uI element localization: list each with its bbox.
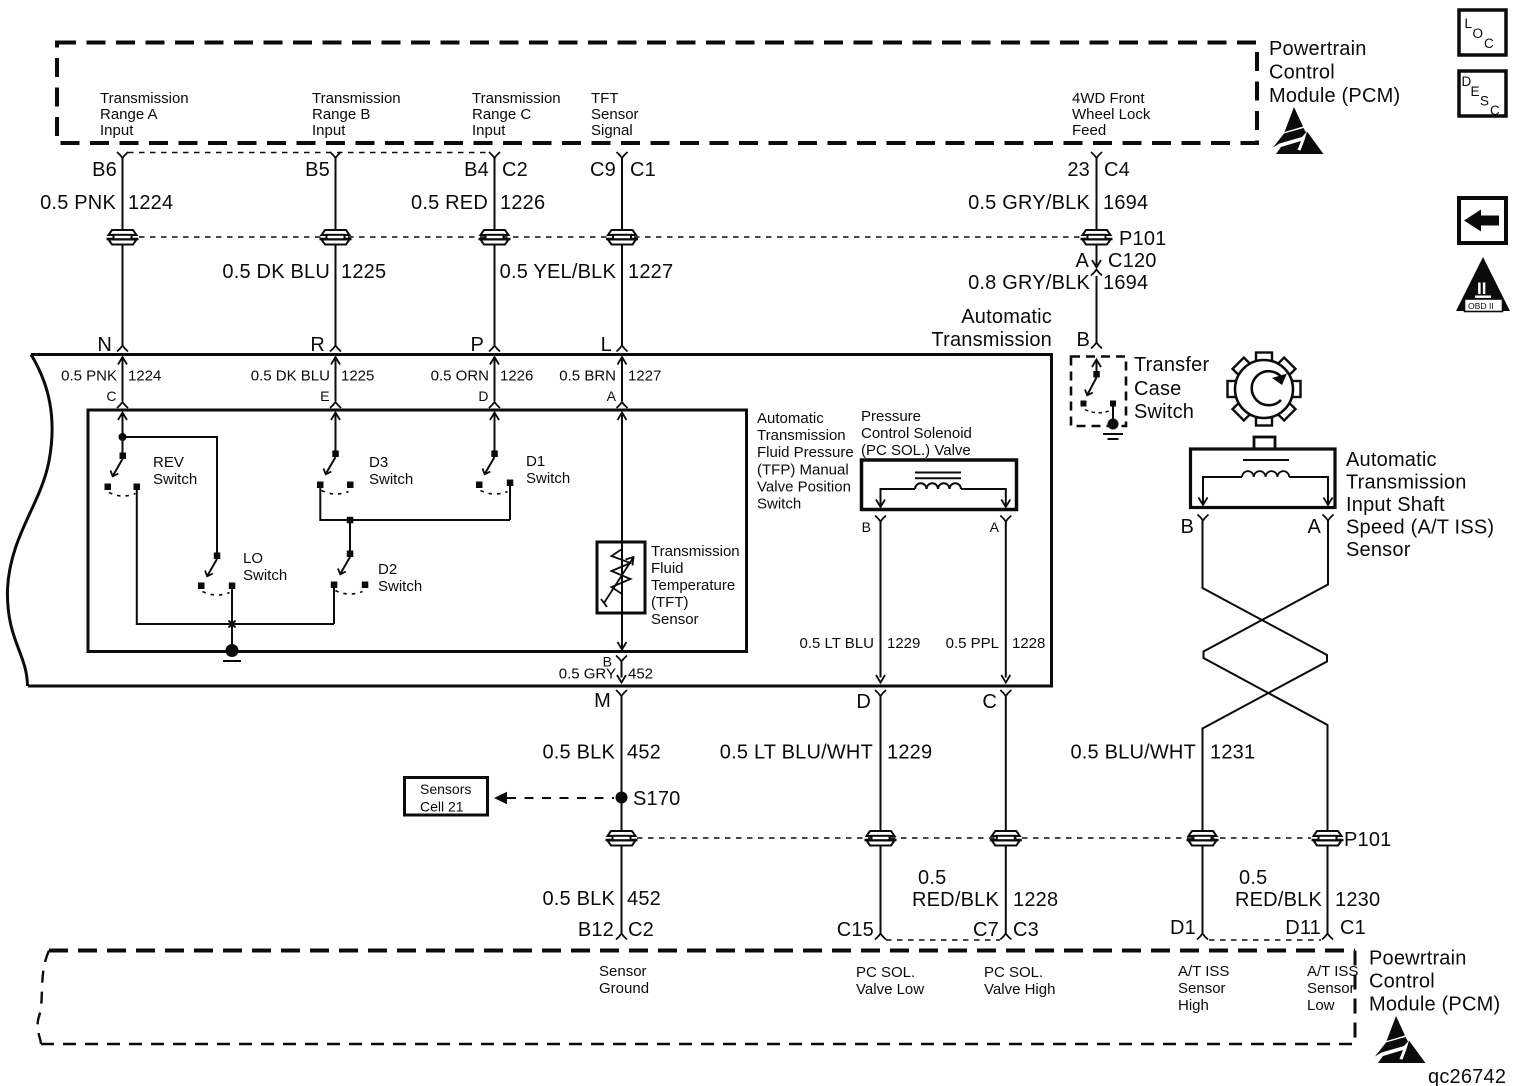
wire 1224 lower segment [122, 244, 124, 345]
wire label 0.5 ORN 1226 (inner) [431, 368, 534, 385]
inline connector P101 on wire 1225 [320, 230, 352, 245]
ESD symbol (top PCM) [1273, 107, 1324, 154]
D2 switch [331, 551, 369, 595]
wire label 0.5 PNK 1224 [40, 192, 173, 214]
svg-text:C3: C3 [1013, 919, 1039, 941]
labels A C120 [1075, 250, 1156, 272]
svg-text:Control: Control [1369, 971, 1435, 993]
svg-text:Case: Case [1134, 378, 1182, 400]
label: PC SOL. Valve Low [856, 964, 924, 998]
svg-text:A: A [1075, 250, 1089, 272]
svg-text:Fluid Pressure: Fluid Pressure [757, 444, 854, 461]
svg-text:452: 452 [628, 666, 653, 683]
wire label 0.8 GRY/BLK 1694 [968, 272, 1148, 294]
wire label 0.5 RED/BLK 1228 [912, 867, 1058, 911]
svg-text:Input Shaft: Input Shaft [1346, 494, 1445, 516]
svg-text:P101: P101 [1344, 829, 1392, 851]
svg-text:C2: C2 [628, 919, 654, 941]
pin E Y connector [330, 402, 341, 408]
pin N Y connector [117, 346, 128, 352]
svg-text:C: C [982, 691, 997, 713]
svg-text:0.8 GRY/BLK: 0.8 GRY/BLK [968, 272, 1090, 294]
wire R inside box upper [331, 357, 340, 401]
connector row P101 dashed line (upper) [139, 236, 1080, 238]
svg-text:Transmission: Transmission [100, 90, 189, 107]
svg-text:Switch: Switch [243, 567, 287, 584]
pin B Y connector (PC SOL) [875, 516, 886, 522]
wire 1230 twisted pair right [1204, 521, 1329, 934]
inline connector P101 on wire 1226 [479, 230, 511, 245]
TFP Manual Valve Position Switch inner box [88, 410, 747, 652]
wire 0.5 PNK 1224 (upper) [122, 158, 124, 230]
wire label 0.5 PNK 1224 (inner) [61, 368, 161, 385]
svg-text:N: N [97, 334, 112, 356]
pin C Y connector (below trans box) [1000, 690, 1011, 696]
svg-text:Sensors: Sensors [420, 781, 471, 797]
svg-text:C1: C1 [630, 159, 656, 181]
pin labels B12 C2 [578, 919, 654, 941]
wire label 0.5 RED 1226 [411, 192, 545, 214]
wire N inside box upper [118, 357, 127, 401]
svg-text:0.5: 0.5 [1239, 867, 1267, 889]
svg-text:A/T ISS: A/T ISS [1178, 963, 1229, 980]
svg-text:A/T ISS: A/T ISS [1307, 963, 1358, 980]
wire label 0.5 BLK 452 (upper) [542, 742, 661, 764]
svg-text:M: M [594, 690, 611, 712]
svg-text:B: B [862, 519, 871, 535]
svg-text:Range C: Range C [472, 106, 531, 123]
wire to REV switch [118, 413, 127, 455]
svg-text:1228: 1228 [1013, 889, 1058, 911]
svg-text:1230: 1230 [1335, 889, 1380, 911]
wire label 0.5 GRY 452 [559, 666, 653, 683]
pin D11 Y connector [1322, 934, 1333, 940]
label Transfer Case Switch [1134, 354, 1209, 423]
svg-text:0.5 PNK: 0.5 PNK [61, 368, 117, 385]
PC SOL solenoid coil [915, 483, 961, 489]
svg-text:RED/BLK: RED/BLK [1235, 889, 1322, 911]
Transfer Case Switch dashed box [1071, 357, 1126, 427]
svg-text:0.5 BLU/WHT: 0.5 BLU/WHT [1070, 742, 1196, 764]
svg-text:C9: C9 [590, 159, 616, 181]
wire 0.5 GRY/BLK 1694 (upper) [1096, 158, 1098, 230]
label Sensors Cell 21 [420, 781, 471, 815]
inline connector on wire 1231 [1187, 831, 1219, 846]
svg-text:C4: C4 [1104, 159, 1130, 181]
pin 23/C4 Y connector [1091, 152, 1102, 158]
wire to D2 switch [349, 523, 351, 552]
wire junction to LO switch [123, 437, 218, 553]
label: Pressure Control Solenoid (PC SOL.) Valve [861, 408, 972, 459]
svg-text:0.5: 0.5 [918, 867, 946, 889]
connector C120 arrow and Y [1092, 260, 1101, 268]
svg-text:0.5 BRN: 0.5 BRN [559, 368, 616, 385]
svg-text:PC SOL.: PC SOL. [984, 964, 1043, 981]
TFT arrow [601, 557, 634, 607]
svg-text:D3: D3 [369, 454, 388, 471]
wire 1226 lower segment [494, 244, 496, 345]
svg-text:0.5 DK BLU: 0.5 DK BLU [251, 368, 330, 385]
svg-text:Transmission: Transmission [931, 329, 1052, 351]
pin labels C7 C3 [973, 919, 1039, 941]
pin L Y connector [617, 346, 628, 352]
svg-text:Sensor: Sensor [651, 611, 699, 628]
svg-text:1231: 1231 [1210, 742, 1255, 764]
pin labels B4 C2 [464, 159, 528, 181]
label REV Switch [153, 454, 197, 488]
wire 0.5 RED/BLK 1228 [1005, 696, 1007, 832]
svg-text:Module (PCM): Module (PCM) [1369, 994, 1500, 1016]
pin B6 Y connector [117, 152, 128, 158]
A/T ISS sensor box [1191, 449, 1336, 508]
svg-text:Valve Position: Valve Position [757, 479, 851, 496]
TFT sensor box [597, 542, 645, 613]
pin labels D11 C1 [1285, 917, 1366, 939]
svg-text:B4: B4 [464, 159, 489, 181]
svg-text:Range A: Range A [100, 106, 158, 123]
svg-text:Switch: Switch [369, 471, 413, 488]
svg-text:D1: D1 [1170, 917, 1196, 939]
connector face dashed line C15-C7 [886, 939, 1000, 941]
pin C7 Y connector [1000, 934, 1011, 940]
label D1 Switch [526, 453, 570, 487]
node: junction square D2 tap [347, 517, 354, 524]
svg-text:1224: 1224 [128, 192, 173, 214]
svg-text:Valve High: Valve High [984, 981, 1055, 998]
svg-text:Switch: Switch [378, 578, 422, 595]
svg-text:452: 452 [627, 742, 661, 764]
label LO Switch [243, 550, 287, 584]
svg-text:B5: B5 [305, 159, 330, 181]
pin P Y connector [489, 346, 500, 352]
svg-text:Input: Input [312, 122, 346, 139]
label: Automatic Transmission Fluid Pressure (TFP) Manual Valve Position Switch [757, 410, 854, 513]
svg-text:B: B [1180, 516, 1194, 538]
transfer case ground dot [1108, 419, 1119, 430]
svg-text:Module (PCM): Module (PCM) [1269, 85, 1400, 107]
wire 0.5 LT BLU 1229 [876, 522, 885, 683]
D3 switch [317, 451, 354, 495]
svg-text:C: C [106, 388, 116, 404]
svg-text:Transmission: Transmission [472, 90, 561, 107]
svg-text:Signal: Signal [591, 122, 633, 139]
pin D Y connector [489, 402, 500, 408]
pin B Y connector (ISS) [1198, 515, 1209, 521]
svg-text:Input: Input [472, 122, 506, 139]
inline connector on wire 1229 [865, 831, 897, 846]
connector row P101 dashed line (lower) [637, 837, 1311, 839]
svg-text:Powertrain: Powertrain [1269, 38, 1367, 60]
svg-text:Control Solenoid: Control Solenoid [861, 425, 972, 442]
wire label 0.5 GRY/BLK 1694 [968, 192, 1148, 214]
icon OBD II triangle [1456, 257, 1510, 312]
svg-text:Transfer: Transfer [1134, 354, 1209, 376]
ISS coil [1242, 471, 1289, 477]
svg-text:1225: 1225 [341, 368, 374, 385]
REV switch [105, 453, 141, 497]
svg-text:0.5 LT BLU/WHT: 0.5 LT BLU/WHT [720, 742, 873, 764]
svg-text:D11: D11 [1285, 917, 1321, 939]
pin A Y connector (ISS) [1323, 515, 1334, 521]
svg-text:OBD II: OBD II [1468, 301, 1494, 311]
svg-text:Low: Low [1307, 997, 1335, 1014]
svg-text:RED/BLK: RED/BLK [912, 889, 999, 911]
svg-text:1694: 1694 [1103, 272, 1148, 294]
svg-text:LO: LO [243, 550, 263, 567]
label: Sensor Ground [599, 963, 649, 997]
svg-text:0.5 BLK: 0.5 BLK [542, 888, 615, 910]
svg-text:Cell 21: Cell 21 [420, 799, 464, 815]
svg-text:A: A [607, 388, 617, 404]
svg-text:Sensor: Sensor [591, 106, 639, 123]
pin A Y connector [617, 402, 628, 408]
wire to D1 switch [490, 413, 499, 453]
wire 0.5 LT BLU/WHT 1229 [880, 696, 882, 832]
splice S170 [616, 792, 628, 804]
wire 1225 lower segment [335, 244, 337, 345]
svg-text:0.5 GRY: 0.5 GRY [559, 666, 616, 683]
connector face dashed line D1-D11 [1209, 939, 1321, 941]
PC SOL coil leads with arrows [876, 489, 1010, 507]
svg-text:S: S [1480, 94, 1489, 109]
svg-text:Transmission: Transmission [312, 90, 401, 107]
svg-text:Speed (A/T ISS): Speed (A/T ISS) [1346, 517, 1494, 539]
inline connector on wire 1230 [1312, 831, 1344, 846]
svg-text:0.5 PPL: 0.5 PPL [946, 635, 999, 652]
label D2 Switch [378, 561, 422, 595]
svg-text:452: 452 [627, 888, 661, 910]
wire D1 contact down to bus [509, 486, 511, 520]
A/T ISS sensor stem [1254, 437, 1275, 449]
wire label 0.5 BLK 452 (lower) [542, 888, 661, 910]
svg-text:Pressure: Pressure [861, 408, 921, 425]
svg-text:A: A [1307, 516, 1321, 538]
svg-text:B12: B12 [578, 919, 614, 941]
svg-text:Sensor: Sensor [1346, 539, 1411, 561]
pin D1 Y connector [1197, 934, 1208, 940]
inline connector on wire 1228 [990, 831, 1022, 846]
label: Transmission Range B Input [312, 90, 401, 139]
wire label 0.5 DK BLU 1225 (inner) [251, 368, 375, 385]
svg-text:Ground: Ground [599, 980, 649, 997]
label: Transmission Fluid Temperature (TFT) Sensor [651, 543, 740, 628]
wire L (TFT) inside box [618, 357, 627, 401]
svg-text:D: D [478, 388, 488, 404]
wire REV contact down and across to D2 leg [137, 490, 334, 624]
svg-text:B6: B6 [92, 159, 117, 181]
svg-text:Switch: Switch [1134, 401, 1194, 423]
svg-text:Temperature: Temperature [651, 577, 735, 594]
svg-text:PC SOL.: PC SOL. [856, 964, 915, 981]
transfer case switch element [1081, 360, 1117, 420]
pin B5 Y connector [330, 152, 341, 158]
wire 0.5 RED 1226 (upper) [494, 158, 496, 230]
svg-text:0.5 GRY/BLK: 0.5 GRY/BLK [968, 192, 1090, 214]
label: TFT Sensor Signal [591, 90, 639, 139]
svg-text:D: D [856, 691, 871, 713]
svg-text:(PC SOL.) Valve: (PC SOL.) Valve [861, 442, 971, 459]
svg-text:1228: 1228 [1012, 635, 1045, 652]
svg-text:Wheel Lock: Wheel Lock [1072, 106, 1151, 123]
pin A Y connector (PC SOL) [1000, 516, 1011, 522]
node: junction dot wire C [119, 433, 127, 441]
svg-text:0.5 PNK: 0.5 PNK [40, 192, 116, 214]
pin C15 Y connector [875, 934, 886, 940]
svg-text:C120: C120 [1108, 250, 1157, 272]
wire label 0.5 YEL/BLK 1227 [500, 261, 674, 283]
svg-text:D2: D2 [378, 561, 397, 578]
svg-text:0.5 DK BLU: 0.5 DK BLU [222, 261, 330, 283]
wire label 0.5 LT BLU/WHT 1229 [720, 742, 933, 764]
svg-text:Poewrtrain: Poewrtrain [1369, 948, 1467, 970]
label: PC SOL. Valve High [984, 964, 1055, 998]
svg-text:Automatic: Automatic [961, 306, 1052, 328]
wire 0.5 DK BLU 1225 (upper) [335, 158, 337, 230]
svg-text:L: L [1465, 16, 1473, 31]
svg-text:Automatic: Automatic [757, 410, 824, 427]
svg-text:O: O [1473, 26, 1484, 41]
svg-text:23: 23 [1067, 159, 1090, 181]
svg-text:1229: 1229 [887, 742, 932, 764]
svg-text:C1: C1 [1340, 917, 1366, 939]
label: 4WD Front Wheel Lock Feed [1072, 90, 1151, 139]
pin C9/C1 Y connector [617, 152, 628, 158]
dashed reference pointer with arrowhead [494, 792, 614, 804]
svg-text:C: C [1484, 36, 1494, 51]
svg-text:Switch: Switch [757, 496, 801, 513]
Automatic Transmission box (torn left edge) [7, 355, 1051, 687]
inline connector on wire 452 [606, 831, 638, 846]
transfer case ground ticks [1103, 434, 1123, 439]
svg-text:Transmission: Transmission [1346, 472, 1467, 494]
pin labels C9 C1 [590, 159, 656, 181]
svg-text:D1: D1 [526, 453, 545, 470]
svg-text:1225: 1225 [341, 261, 386, 283]
svg-text:S170: S170 [633, 788, 681, 810]
svg-text:Sensor: Sensor [1178, 980, 1226, 997]
svg-text:Range B: Range B [312, 106, 370, 123]
wire label 0.5 RED/BLK 1230 [1235, 867, 1380, 911]
wire 1227 lower segment [621, 244, 623, 345]
wire D2 contact down to bus [333, 588, 335, 624]
svg-text:Transmission: Transmission [757, 427, 846, 444]
wire to D3 switch [331, 413, 340, 453]
svg-text:C7: C7 [973, 919, 999, 941]
pin B4/C2 Y connector [489, 152, 500, 158]
pin labels 23 C4 [1067, 159, 1130, 181]
label: A/T ISS Sensor Low [1307, 963, 1358, 1014]
svg-text:0.5 BLK: 0.5 BLK [542, 742, 615, 764]
PCM dashed box (bottom) [38, 951, 1355, 1045]
label D3 Switch [369, 454, 413, 488]
svg-text:Control: Control [1269, 62, 1335, 84]
wire LO contact to ground dot [231, 589, 233, 650]
svg-text:1227: 1227 [628, 368, 661, 385]
pin B12 Y connector [616, 934, 627, 940]
ground tick [223, 660, 241, 662]
label: Powertrain Control Module (PCM) [1269, 38, 1400, 107]
svg-text:0.5 ORN: 0.5 ORN [431, 368, 489, 385]
wire 1229 lower segment [880, 845, 882, 933]
svg-text:Switch: Switch [153, 471, 197, 488]
inline connector P101 on wire 1224 [107, 230, 139, 245]
label Automatic Transmission [931, 306, 1052, 351]
wire 0.5 GRY 452 [617, 662, 626, 683]
Sensors Cell 21 reference box [405, 778, 488, 816]
svg-text:High: High [1178, 997, 1209, 1014]
svg-text:A: A [990, 519, 1000, 535]
svg-text:Sensor: Sensor [599, 963, 647, 980]
svg-text:1226: 1226 [500, 192, 545, 214]
icon box back-arrow [1459, 198, 1506, 243]
label: Poewrtrain Control Module (PCM) [1369, 948, 1500, 1016]
wire label 0.5 BLU/WHT 1231 [1070, 742, 1255, 764]
wire label 0.5 PPL 1228 [946, 635, 1046, 652]
svg-text:1224: 1224 [128, 368, 161, 385]
label: A/T ISS Sensor High [1178, 963, 1229, 1014]
svg-text:P: P [470, 334, 484, 356]
svg-text:Feed: Feed [1072, 122, 1106, 139]
label: Transmission Range A Input [100, 90, 189, 139]
node: crossing junction [229, 621, 236, 628]
svg-text:Automatic: Automatic [1346, 449, 1437, 471]
svg-text:B: B [1076, 329, 1090, 351]
wire 1231 twisted pair left [1203, 521, 1328, 934]
svg-text:Sensor: Sensor [1307, 980, 1355, 997]
svg-text:C15: C15 [837, 919, 874, 941]
wire 0.5 BLK 452 (lower) [621, 845, 623, 933]
pin B Y connector [1091, 343, 1102, 349]
svg-text:R: R [310, 334, 325, 356]
D1 switch [476, 451, 513, 495]
svg-text:Fluid: Fluid [651, 560, 684, 577]
ground dot on inner box edge [226, 644, 239, 657]
ISS core line [1243, 459, 1289, 461]
pin C Y connector [117, 402, 128, 408]
wire label 0.5 LT BLU 1229 [800, 635, 921, 652]
pin M Y connector [616, 690, 627, 696]
TFT thermistor zigzag [612, 549, 631, 594]
svg-text:1226: 1226 [500, 368, 533, 385]
svg-text:Valve Low: Valve Low [856, 981, 924, 998]
PC SOL solenoid core lines [915, 473, 961, 479]
svg-text:C: C [1490, 103, 1500, 118]
wire 0.5 BLK 452 (upper) [621, 696, 623, 832]
svg-text:(TFT): (TFT) [651, 594, 688, 611]
LO switch [198, 553, 235, 596]
wire 1694 segment to C120 [1096, 244, 1098, 267]
svg-text:C2: C2 [502, 159, 528, 181]
svg-text:Transmission: Transmission [651, 543, 740, 560]
svg-text:0.5 YEL/BLK: 0.5 YEL/BLK [500, 261, 617, 283]
ISS coil leads with arrows [1199, 477, 1333, 505]
svg-text:II: II [1477, 279, 1486, 298]
svg-text:(TFP) Manual: (TFP) Manual [757, 462, 849, 479]
svg-text:TFT: TFT [591, 90, 619, 107]
label: Transmission Range C Input [472, 90, 561, 139]
svg-text:1227: 1227 [628, 261, 673, 283]
pin B Y connector below inner box [616, 656, 627, 662]
wire 0.5 PPL 1228 [1001, 522, 1010, 683]
inline connector P101 on wire 1694 [1081, 230, 1113, 245]
wire D3 contact down and across to D1 [320, 488, 510, 520]
svg-text:1229: 1229 [887, 635, 920, 652]
wire 0.5 YEL/BLK 1227 (upper) [621, 158, 623, 230]
icon box LOC [1459, 10, 1506, 55]
wire P inside box upper [490, 357, 499, 401]
connector face dashed line pins B6-B5-B4 [128, 152, 489, 154]
pin D Y connector (below trans box) [875, 690, 886, 696]
